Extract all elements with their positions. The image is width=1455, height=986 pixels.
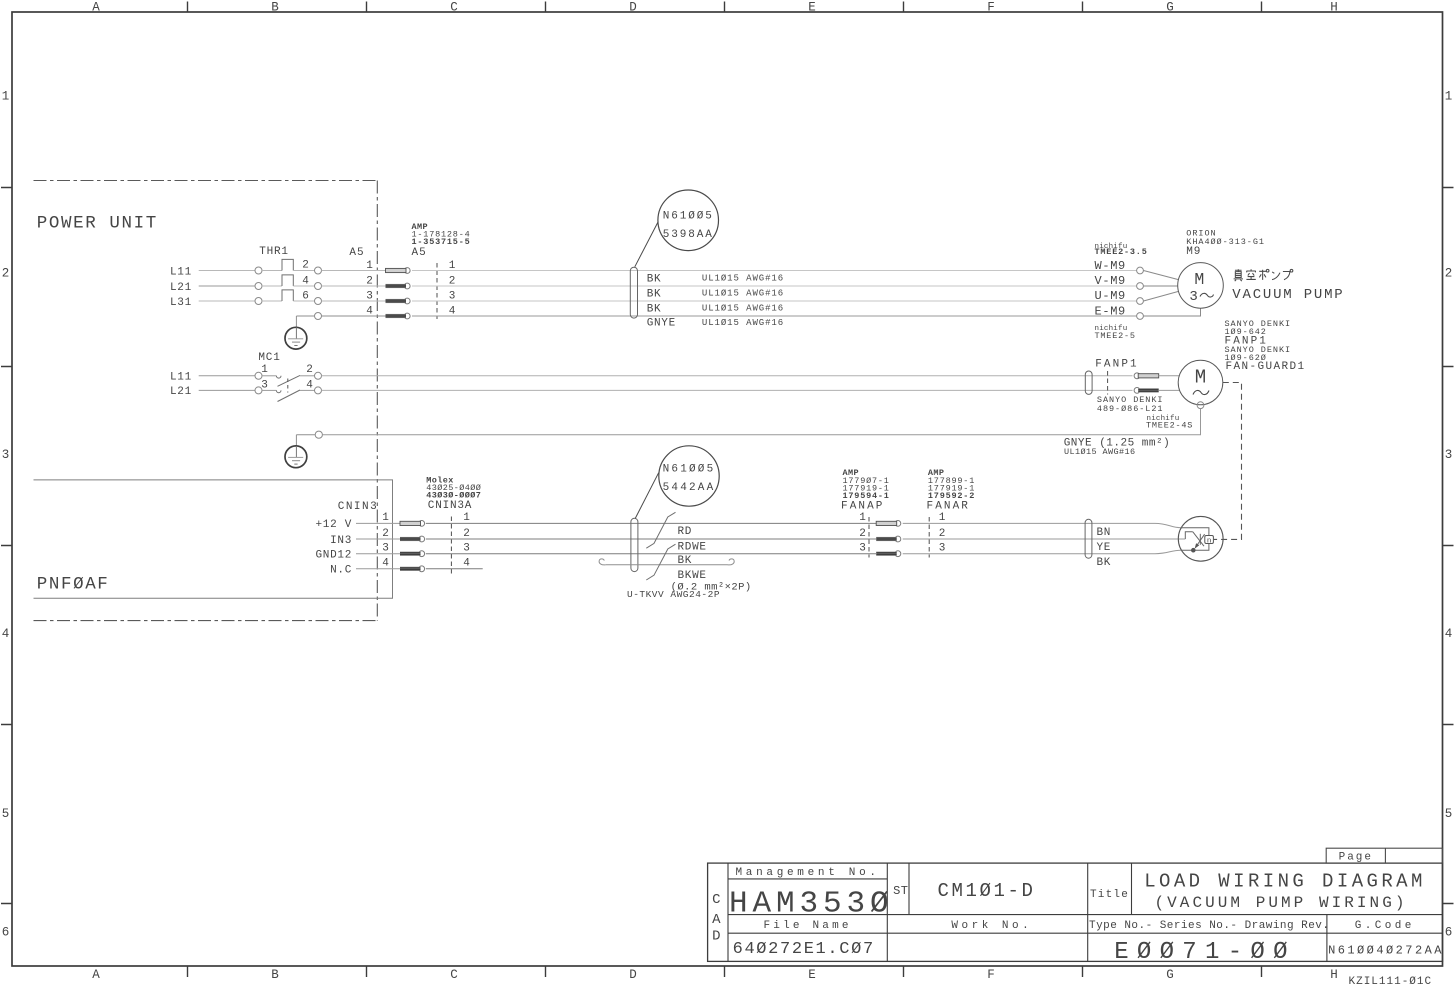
wire BN to sensor bbox=[903, 523, 1181, 527]
svg-text:2: 2 bbox=[1445, 266, 1453, 280]
wire THR1 contact row 2 left bbox=[262, 285, 282, 287]
wire L11 lead bbox=[199, 270, 255, 272]
svg-text:U-M9: U-M9 bbox=[1095, 289, 1126, 303]
svg-text:ST: ST bbox=[893, 884, 908, 898]
wire MC1 pin4 to FANP1 bbox=[322, 389, 1133, 391]
svg-text:E-M9: E-M9 bbox=[1095, 304, 1126, 318]
MC1 contact 3-4 fixed side bbox=[262, 389, 276, 391]
svg-text:3: 3 bbox=[939, 543, 946, 555]
svg-text:3: 3 bbox=[1189, 289, 1197, 305]
svg-text:Type No.- Series No.- Drawing: Type No.- Series No.- Drawing Rev. bbox=[1089, 920, 1329, 932]
svg-text:1-353715-5: 1-353715-5 bbox=[412, 237, 471, 247]
THR1 output terminal pin 2 bbox=[315, 267, 322, 274]
svg-text:F: F bbox=[987, 1, 995, 15]
svg-text:1: 1 bbox=[939, 512, 946, 524]
svg-text:2: 2 bbox=[382, 528, 389, 540]
svg-text:POWER UNIT: POWER UNIT bbox=[37, 213, 158, 233]
svg-text:THR1: THR1 bbox=[259, 246, 289, 258]
wire FANP1 to fan motor 1 bbox=[1159, 375, 1180, 377]
svg-text:Title: Title bbox=[1090, 889, 1129, 901]
svg-text:BK: BK bbox=[1097, 557, 1112, 569]
MC1 contact 3-4 blade bbox=[278, 390, 301, 402]
svg-text:UL1Ø15 AWG#16: UL1Ø15 AWG#16 bbox=[702, 303, 784, 313]
svg-text:Work No.: Work No. bbox=[951, 920, 1032, 932]
wire W terminal to motor bbox=[1144, 271, 1179, 280]
svg-text:3: 3 bbox=[366, 291, 373, 303]
power unit boundary bottom (dash-dot) bbox=[34, 620, 378, 622]
wire THR1 contact row 3 left bbox=[262, 300, 282, 302]
M9 terminal circle 1 bbox=[1137, 267, 1144, 274]
wire ground 2 left bbox=[296, 434, 315, 436]
wire THR1 to A5 row 1 bbox=[322, 270, 386, 272]
svg-text:FANAP: FANAP bbox=[841, 500, 885, 512]
svg-text:C: C bbox=[712, 892, 720, 908]
svg-text:6: 6 bbox=[1445, 925, 1453, 939]
svg-text:HAM353Ø: HAM353Ø bbox=[729, 887, 894, 922]
svg-text:A5: A5 bbox=[412, 247, 427, 259]
sensor diagonal bbox=[1193, 532, 1204, 546]
svg-text:L31: L31 bbox=[170, 297, 192, 309]
wire FANP1 to fan motor 2 bbox=[1159, 389, 1180, 391]
svg-text:1: 1 bbox=[382, 512, 389, 524]
wire THR1 contact row 1 right bbox=[293, 270, 314, 272]
svg-text:B: B bbox=[271, 1, 279, 15]
wire RD (pin1) bbox=[426, 522, 876, 524]
title block grid bbox=[708, 863, 1443, 961]
wire BK pin2 to V-M9 bbox=[412, 285, 1137, 287]
wire BKWE cut loop bbox=[599, 559, 606, 565]
wire V terminal to motor bbox=[1144, 285, 1178, 287]
wire L21 lead bbox=[199, 285, 255, 287]
svg-text:3: 3 bbox=[261, 379, 268, 391]
svg-text:FANP1: FANP1 bbox=[1095, 359, 1139, 371]
svg-text:+12 V: +12 V bbox=[315, 519, 352, 531]
svg-text:3: 3 bbox=[382, 543, 389, 555]
svg-text:43Ø3Ø-ØØØ7: 43Ø3Ø-ØØØ7 bbox=[426, 490, 481, 500]
svg-text:N61ØØ5: N61ØØ5 bbox=[663, 463, 716, 475]
svg-text:UL1Ø15 AWG#16: UL1Ø15 AWG#16 bbox=[702, 318, 784, 328]
svg-text:CNIN3: CNIN3 bbox=[338, 501, 379, 513]
svg-text:UL1Ø15 AWG#16: UL1Ø15 AWG#16 bbox=[1064, 447, 1136, 457]
svg-text:1: 1 bbox=[366, 260, 373, 272]
svg-text:2: 2 bbox=[366, 276, 373, 288]
wire CNIN3 pin 4 stub bbox=[356, 568, 400, 570]
ground terminal row 4 bbox=[315, 313, 322, 320]
wire CNIN3 pin 2 stub bbox=[356, 538, 400, 540]
wire GNYE fan earth run bbox=[322, 409, 1200, 435]
svg-text:L21: L21 bbox=[170, 282, 192, 294]
svg-text:E: E bbox=[808, 968, 816, 982]
cable marker oval (fan power) bbox=[1085, 371, 1092, 394]
M9 terminal circle 4 bbox=[1137, 313, 1144, 320]
MC1 linkage (dashed) bbox=[287, 379, 289, 393]
svg-text:H: H bbox=[1330, 1, 1338, 15]
svg-text:RD: RD bbox=[678, 526, 693, 538]
svg-text:M: M bbox=[1194, 270, 1204, 289]
wire ground row 4 right bbox=[322, 315, 386, 317]
svg-text:3: 3 bbox=[463, 543, 470, 555]
svg-text:V-M9: V-M9 bbox=[1095, 274, 1126, 288]
sensor input step bbox=[1185, 532, 1193, 539]
sensor hall element bar bbox=[1199, 534, 1201, 545]
connector CNIN3A mating face (dashed) bbox=[450, 517, 452, 574]
wire BK pin3 to U-M9 bbox=[412, 300, 1137, 302]
cable marker oval (fan sensor) bbox=[1085, 519, 1092, 558]
svg-text:UL1Ø15 AWG#16: UL1Ø15 AWG#16 bbox=[702, 273, 784, 283]
sensor arrow bbox=[1196, 534, 1204, 546]
thermal element THR1 row 2 bbox=[282, 275, 293, 286]
svg-text:Management No.: Management No. bbox=[735, 867, 879, 879]
MC1 terminal pin 1 bbox=[255, 372, 262, 379]
svg-text:n: n bbox=[1207, 537, 1212, 545]
MC1 contact 1-2 fixed side bbox=[262, 375, 276, 377]
sensor bottom rail bbox=[1181, 544, 1209, 551]
svg-text:2: 2 bbox=[306, 364, 313, 376]
svg-text:4: 4 bbox=[306, 379, 313, 391]
svg-text:3: 3 bbox=[859, 543, 866, 555]
THR1 output terminal pin 6 bbox=[315, 298, 322, 305]
wire ground row 4 left bbox=[296, 315, 314, 317]
svg-text:N61ØØ4Ø272AA: N61ØØ4Ø272AA bbox=[1328, 944, 1444, 958]
svg-text:BK: BK bbox=[647, 288, 662, 300]
svg-text:N.C: N.C bbox=[330, 565, 352, 577]
svg-text:L21: L21 bbox=[170, 386, 192, 398]
svg-text:Page: Page bbox=[1339, 852, 1373, 864]
twisted pair mark 2 bbox=[646, 544, 675, 580]
svg-text:EØØ71-ØØ: EØØ71-ØØ bbox=[1114, 939, 1296, 966]
sensor top rail bbox=[1181, 528, 1209, 536]
svg-text:2: 2 bbox=[302, 260, 309, 272]
wire THR1 contact row 1 left bbox=[262, 270, 282, 272]
svg-text:BN: BN bbox=[1097, 527, 1112, 539]
fan guard link (dashed) bbox=[1214, 383, 1242, 540]
svg-text:G.Code: G.Code bbox=[1355, 920, 1415, 932]
THR1 input terminal 2 bbox=[255, 283, 262, 290]
svg-text:1: 1 bbox=[1445, 89, 1453, 103]
connector FANAR mating face (dashed) bbox=[928, 517, 930, 558]
THR1 input terminal 3 bbox=[255, 298, 262, 305]
MC1 contact 1-2 blade bbox=[278, 375, 301, 386]
balloon 5398AA leader bbox=[635, 222, 658, 267]
svg-text:C: C bbox=[450, 968, 458, 982]
svg-text:PNFØAF: PNFØAF bbox=[37, 575, 110, 595]
THR1 output terminal pin 4 bbox=[315, 283, 322, 290]
svg-text:A: A bbox=[712, 912, 721, 928]
cable marker oval (sensor cable) bbox=[631, 518, 638, 571]
wire MC1 pin2 to FANP1 bbox=[322, 375, 1133, 377]
svg-text:4: 4 bbox=[302, 275, 309, 287]
svg-text:64Ø272E1.CØ7: 64Ø272E1.CØ7 bbox=[733, 940, 875, 959]
svg-text:LOAD WIRING DIAGRAM: LOAD WIRING DIAGRAM bbox=[1144, 871, 1426, 893]
svg-text:E: E bbox=[808, 1, 816, 15]
MC1 terminal pin 2 bbox=[315, 372, 322, 379]
svg-text:4: 4 bbox=[2, 627, 10, 641]
svg-text:GNYE: GNYE bbox=[647, 318, 676, 330]
svg-text:489-Ø86-L21: 489-Ø86-L21 bbox=[1097, 404, 1164, 414]
svg-text:1: 1 bbox=[261, 364, 268, 376]
svg-text:6: 6 bbox=[2, 925, 10, 939]
crimp terminal CNIN3 pin 2 bbox=[419, 536, 425, 542]
wire YE to sensor bbox=[903, 538, 1186, 540]
crimp terminal CNIN3 pin 3 bbox=[419, 551, 425, 557]
svg-text:FAN-GUARD1: FAN-GUARD1 bbox=[1226, 361, 1306, 373]
wire ground drop 2 bbox=[295, 435, 297, 447]
wire RDWE (pin2) bbox=[426, 538, 876, 540]
crimp terminal FANAP pin 1 bbox=[895, 521, 901, 527]
crimp terminal A5 pin 1 bbox=[404, 268, 410, 274]
svg-text:TMEE2-3.5: TMEE2-3.5 bbox=[1095, 247, 1148, 257]
svg-text:D: D bbox=[629, 1, 637, 15]
wire CNIN3 pin 1 stub bbox=[356, 522, 400, 524]
svg-text:BK: BK bbox=[647, 303, 662, 315]
svg-text:5442AA: 5442AA bbox=[663, 482, 716, 494]
svg-text:5398AA: 5398AA bbox=[663, 229, 714, 241]
crimp terminal CNIN3 pin 1 bbox=[419, 521, 425, 527]
sensor output element box bbox=[1205, 536, 1214, 544]
ground symbol 2 (protective earth) bbox=[285, 446, 307, 468]
svg-text:M: M bbox=[1195, 367, 1206, 389]
wire MC1 pin2 side bbox=[300, 375, 315, 377]
THR1 input terminal 1 bbox=[255, 267, 262, 274]
svg-text:M9: M9 bbox=[1186, 246, 1201, 258]
svg-text:(VACUUM PUMP WIRING): (VACUUM PUMP WIRING) bbox=[1154, 894, 1407, 912]
svg-text:BK: BK bbox=[647, 273, 662, 285]
crimp terminal A5 pin 2 bbox=[404, 283, 410, 289]
svg-text:FANAR: FANAR bbox=[927, 500, 971, 512]
crimp terminal FANAP pin 2 bbox=[895, 536, 901, 542]
ground symbol 1 (protective earth) bbox=[285, 327, 307, 349]
wire CNIN3 pin 3 stub bbox=[356, 553, 400, 555]
balloon N61005 5442AA bbox=[659, 446, 719, 506]
MC1 terminal pin 3 bbox=[255, 387, 262, 394]
wire L31 lead bbox=[199, 300, 255, 302]
svg-text:UL1Ø15 AWG#16: UL1Ø15 AWG#16 bbox=[702, 288, 784, 298]
twisted pair mark 1 bbox=[646, 512, 675, 548]
M9 terminal circle 2 bbox=[1137, 283, 1144, 290]
svg-text:2: 2 bbox=[859, 528, 866, 540]
crimp terminal FANP1 pin1 bbox=[1134, 373, 1140, 379]
svg-text:U-TKVV AWG24-2P: U-TKVV AWG24-2P bbox=[627, 589, 720, 600]
MC1 terminal pin 4 bbox=[315, 387, 322, 394]
svg-text:BKWE: BKWE bbox=[678, 570, 707, 582]
connector FANP1 mating face (dashed) bbox=[1107, 371, 1109, 395]
crimp terminal CNIN3 pin 4 bbox=[419, 566, 425, 572]
frame zone ticks bbox=[187, 2, 189, 13]
svg-text:2: 2 bbox=[463, 528, 470, 540]
svg-text:A: A bbox=[92, 968, 100, 982]
svg-text:RDWE: RDWE bbox=[678, 542, 707, 554]
page box bbox=[1326, 848, 1442, 863]
wire THR1 to A5 row 3 bbox=[322, 300, 386, 302]
svg-text:File Name: File Name bbox=[763, 920, 851, 932]
power unit boundary top (dash-dot) bbox=[34, 180, 378, 182]
wire BK pin1 to W-M9 bbox=[412, 270, 1137, 272]
svg-text:D: D bbox=[629, 968, 637, 982]
crimp terminal A5 pin 4 bbox=[404, 313, 410, 319]
svg-text:TMEE2-4S: TMEE2-4S bbox=[1146, 420, 1193, 430]
fan motor M (FANP1) bbox=[1178, 360, 1223, 405]
M9 terminal circle 3 bbox=[1137, 298, 1144, 305]
svg-text:4: 4 bbox=[1445, 627, 1453, 641]
svg-text:G: G bbox=[1166, 1, 1174, 15]
thermal element THR1 row 3 bbox=[282, 290, 293, 301]
fan motor earth terminal bbox=[1197, 402, 1204, 409]
cable marker oval (pump cable) bbox=[630, 267, 637, 318]
sensor junction dot bbox=[1192, 548, 1196, 552]
svg-text:CM1Ø1-D: CM1Ø1-D bbox=[937, 880, 1035, 902]
wire N.C stub (pin4) bbox=[426, 568, 483, 570]
fan rotation sensor circle bbox=[1178, 516, 1223, 561]
svg-text:A: A bbox=[92, 1, 100, 15]
svg-text:1: 1 bbox=[859, 512, 866, 524]
svg-text:1: 1 bbox=[463, 512, 470, 524]
svg-text:4: 4 bbox=[366, 306, 373, 318]
wire BK to sensor bbox=[903, 550, 1181, 554]
PNF0AF box bbox=[34, 480, 393, 598]
thermal element THR1 row 1 bbox=[282, 259, 293, 270]
power unit boundary right (dash-dot) bbox=[376, 181, 378, 621]
wire GNYE pin4 to E-M9 bbox=[412, 315, 1137, 317]
crimp terminal FANP1 pin2 bbox=[1134, 388, 1140, 394]
svg-text:3: 3 bbox=[2, 448, 10, 462]
wire BK (pin3) bbox=[426, 553, 876, 555]
wire L21 to MC1 bbox=[199, 389, 255, 391]
wire U terminal to motor bbox=[1144, 291, 1179, 301]
svg-text:3: 3 bbox=[1445, 448, 1453, 462]
svg-text:MC1: MC1 bbox=[258, 352, 280, 364]
svg-text:KZIL111-Ø1C: KZIL111-Ø1C bbox=[1349, 976, 1433, 986]
svg-text:CNIN3A: CNIN3A bbox=[428, 500, 472, 512]
svg-text:L11: L11 bbox=[170, 372, 192, 384]
connector FANAP mating face (dashed) bbox=[868, 517, 870, 558]
svg-text:D: D bbox=[712, 929, 720, 945]
svg-text:IN3: IN3 bbox=[330, 535, 352, 547]
svg-text:4: 4 bbox=[382, 558, 389, 570]
svg-text:A5: A5 bbox=[349, 247, 364, 259]
svg-text:TMEE2-5: TMEE2-5 bbox=[1095, 331, 1136, 341]
svg-text:1: 1 bbox=[2, 89, 10, 103]
svg-text:L11: L11 bbox=[170, 266, 192, 278]
svg-text:6: 6 bbox=[302, 290, 309, 302]
crimp terminal A5 pin 3 bbox=[404, 298, 410, 304]
svg-text:H: H bbox=[1330, 968, 1338, 982]
svg-text:2: 2 bbox=[939, 528, 946, 540]
label vacuum pump (japanese) bbox=[1234, 269, 1293, 281]
wire MC1 pin4 side bbox=[300, 389, 315, 391]
wire E terminal to motor bbox=[1144, 308, 1201, 316]
balloon N61005 5398AA bbox=[658, 190, 719, 251]
svg-text:BK: BK bbox=[678, 555, 693, 567]
svg-text:B: B bbox=[271, 968, 279, 982]
svg-text:F: F bbox=[987, 968, 995, 982]
wire THR1 contact row 2 right bbox=[293, 285, 314, 287]
svg-text:G: G bbox=[1166, 968, 1174, 982]
wire THR1 to A5 row 2 bbox=[322, 285, 386, 287]
crimp terminal FANAP pin 3 bbox=[895, 551, 901, 557]
svg-text:4: 4 bbox=[463, 558, 470, 570]
motor M9 (vacuum pump) bbox=[1178, 263, 1224, 309]
wire THR1 contact row 3 right bbox=[293, 300, 314, 302]
svg-text:GND12: GND12 bbox=[315, 549, 352, 561]
svg-text:YE: YE bbox=[1097, 542, 1112, 554]
svg-text:5: 5 bbox=[1445, 807, 1453, 821]
connector A5 mating face (dashed) bbox=[436, 263, 438, 319]
svg-text:W-M9: W-M9 bbox=[1095, 259, 1126, 273]
balloon 5442AA leader bbox=[635, 473, 658, 519]
svg-text:5: 5 bbox=[2, 807, 10, 821]
ground terminal 2 bbox=[315, 431, 322, 438]
svg-text:N61ØØ5: N61ØØ5 bbox=[663, 211, 714, 223]
svg-text:VACUUM PUMP: VACUUM PUMP bbox=[1232, 287, 1344, 303]
wire ground drop 1 bbox=[295, 316, 297, 327]
wire L11 to MC1 bbox=[199, 375, 255, 377]
svg-text:C: C bbox=[450, 1, 458, 15]
svg-text:2: 2 bbox=[2, 266, 10, 280]
